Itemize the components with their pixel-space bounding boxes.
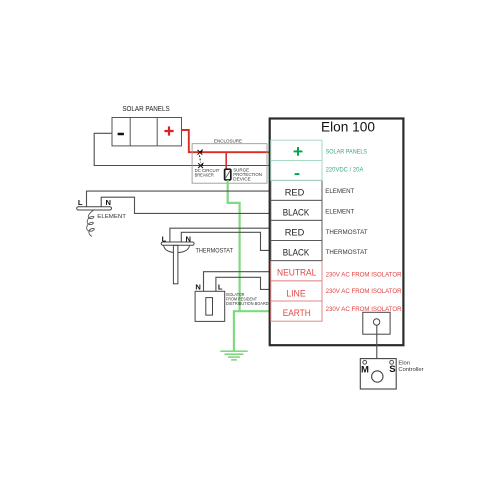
svg-text:NEUTRAL: NEUTRAL [277, 268, 316, 278]
svg-text:LINE: LINE [286, 288, 306, 298]
svg-text:THERMOSTAT: THERMOSTAT [326, 250, 368, 256]
thermostat terminal label N [185, 234, 190, 243]
terminal label LINE [286, 288, 306, 298]
thermostat TH1 dome [164, 245, 190, 252]
label ELEMENT [97, 214, 126, 220]
svg-text:230V AC FROM ISOLATOR: 230V AC FROM ISOLATOR [326, 273, 403, 279]
svg-text:SOLAR PANELS: SOLAR PANELS [326, 150, 368, 156]
svg-text:ELEMENT: ELEMENT [325, 210, 354, 216]
svg-text:BLACK: BLACK [283, 208, 310, 218]
net label 230V AC FROM ISOLATOR (line) [326, 289, 403, 295]
net label 230V AC FROM ISOLATOR (earth) [326, 307, 403, 313]
DC circuit breaker CB1 pole 1 contact [198, 149, 204, 155]
PV1 negative polarity mark [118, 133, 124, 136]
terminal block: plus [271, 140, 322, 160]
isolator SW1 rocker [206, 298, 213, 316]
wire: element L to Elon RED terminal [87, 191, 271, 207]
terminal block: BLACK thermostat [271, 241, 322, 261]
terminal block: BLACK element [271, 200, 322, 220]
U2 mounting hole right [390, 360, 394, 364]
wire: PV1 positive to Elon plus terminal (red) [182, 130, 271, 152]
element terminal label N [105, 198, 110, 207]
surge protection device SPD1 [225, 169, 231, 180]
svg-text:M: M [361, 365, 369, 376]
net label 230V AC FROM ISOLATOR (neutral) [326, 273, 403, 279]
thermostat TH1 probe [173, 245, 178, 283]
wire: isolator L to Elon LINE terminal [216, 277, 270, 291]
svg-text:N: N [195, 282, 200, 291]
solar panel PV1 [112, 118, 182, 146]
thermostat terminal label L [162, 234, 167, 243]
svg-text:BREAKER: BREAKER [195, 173, 215, 178]
thermostat TH1 flange [161, 242, 194, 245]
isolator terminal label N [195, 282, 200, 291]
PV1 positive polarity mark [164, 126, 173, 135]
heating element E1 coil [87, 210, 95, 236]
Elon 100 controller main box U1 [270, 119, 404, 346]
svg-text:SOLAR PANELS: SOLAR PANELS [122, 104, 169, 113]
svg-text:EARTH: EARTH [283, 308, 311, 318]
wire: earth branch to Elon EARTH terminal (green) [240, 310, 270, 312]
label SOLAR PANELS [122, 104, 169, 113]
wire: J1 to Elon controller remote [376, 325, 378, 358]
net label ELEMENT (red) [325, 189, 354, 195]
terminal plus symbol [294, 147, 303, 156]
net label THERMOSTAT (black) [326, 250, 368, 256]
U2 dial [372, 371, 383, 382]
terminal block: minus [271, 161, 322, 181]
svg-text:THERMOSTAT: THERMOSTAT [196, 247, 234, 254]
terminal label BLACK (thermostat) [283, 248, 310, 258]
svg-text:Controller: Controller [398, 367, 423, 373]
wire: isolator N to Elon NEUTRAL terminal [204, 272, 271, 292]
U2 mounting hole left [363, 360, 367, 364]
terminal label BLACK (element) [283, 208, 310, 218]
wire: earth run from SPD down and to ground (green) [228, 180, 240, 351]
DC circuit breaker CB1 pole 2 contact [198, 162, 204, 168]
terminal minus symbol [295, 173, 300, 175]
wire: PV1 negative to Elon minus terminal (black) [94, 133, 270, 165]
terminal label RED (thermostat) [285, 228, 305, 238]
terminal block: RED thermostat [271, 220, 322, 240]
terminal label EARTH [283, 308, 311, 318]
isolator label [226, 292, 269, 306]
svg-text:L: L [218, 282, 223, 291]
DC circuit breaker label [195, 168, 220, 178]
wire: red stub from breaker bus down to SPD [225, 152, 227, 169]
enclosure box [192, 144, 267, 184]
ground symbol (earth) [220, 351, 248, 360]
wire: thermostat N to Elon BLACK terminal [181, 232, 270, 250]
label THERMOSTAT [196, 247, 234, 254]
svg-text:S: S [389, 364, 395, 375]
wire: element N to Elon BLACK terminal [101, 197, 270, 213]
terminal block: LINE [271, 281, 322, 301]
svg-text:Elon: Elon [398, 360, 410, 366]
svg-text:230V AC FROM ISOLATOR: 230V AC FROM ISOLATOR [326, 289, 403, 295]
DC circuit breaker CB1 linkage (dashed) [200, 155, 201, 162]
svg-text:L: L [78, 198, 83, 207]
controller comms connector J1 [363, 312, 390, 334]
svg-text:ELEMENT: ELEMENT [97, 214, 126, 220]
terminal label RED (element) [285, 187, 305, 197]
terminal block: RED element [271, 180, 322, 200]
enclosure label [214, 139, 242, 145]
svg-text:BLACK: BLACK [283, 248, 310, 258]
terminal block: NEUTRAL [271, 261, 322, 281]
U2 pin label S [389, 364, 395, 375]
label Elon Controller [398, 360, 423, 373]
isolator terminal label L [218, 282, 223, 291]
svg-text:ELEMENT: ELEMENT [325, 189, 354, 195]
Elon controller remote U2 body [360, 359, 396, 389]
svg-text:Elon 100: Elon 100 [321, 119, 375, 135]
heating element E1 flange [77, 207, 112, 210]
net label ELEMENT (black) [325, 210, 354, 216]
svg-text:DEVICE: DEVICE [233, 176, 251, 181]
svg-text:RED: RED [285, 228, 305, 238]
isolator SW1 body [195, 291, 225, 321]
surge protection device label [233, 167, 262, 181]
svg-text:RED: RED [285, 187, 305, 197]
svg-text:N: N [105, 198, 110, 207]
element terminal label L [78, 198, 83, 207]
label Elon 100 [321, 119, 375, 135]
wire: thermostat L to Elon RED terminal [170, 228, 270, 242]
svg-text:DISTRIBUTION BOARD: DISTRIBUTION BOARD [226, 301, 269, 306]
U2 pin label M [361, 365, 369, 376]
svg-text:220VDC / 20A: 220VDC / 20A [326, 168, 364, 174]
svg-text:THERMOSTAT: THERMOSTAT [326, 230, 368, 236]
net label SOLAR PANELS (plus terminal) [326, 150, 368, 156]
terminal label NEUTRAL [277, 268, 316, 278]
net label 220VDC / 20A (minus terminal) [326, 168, 364, 174]
net label THERMOSTAT (red) [326, 230, 368, 236]
terminal block: EARTH [271, 301, 322, 321]
